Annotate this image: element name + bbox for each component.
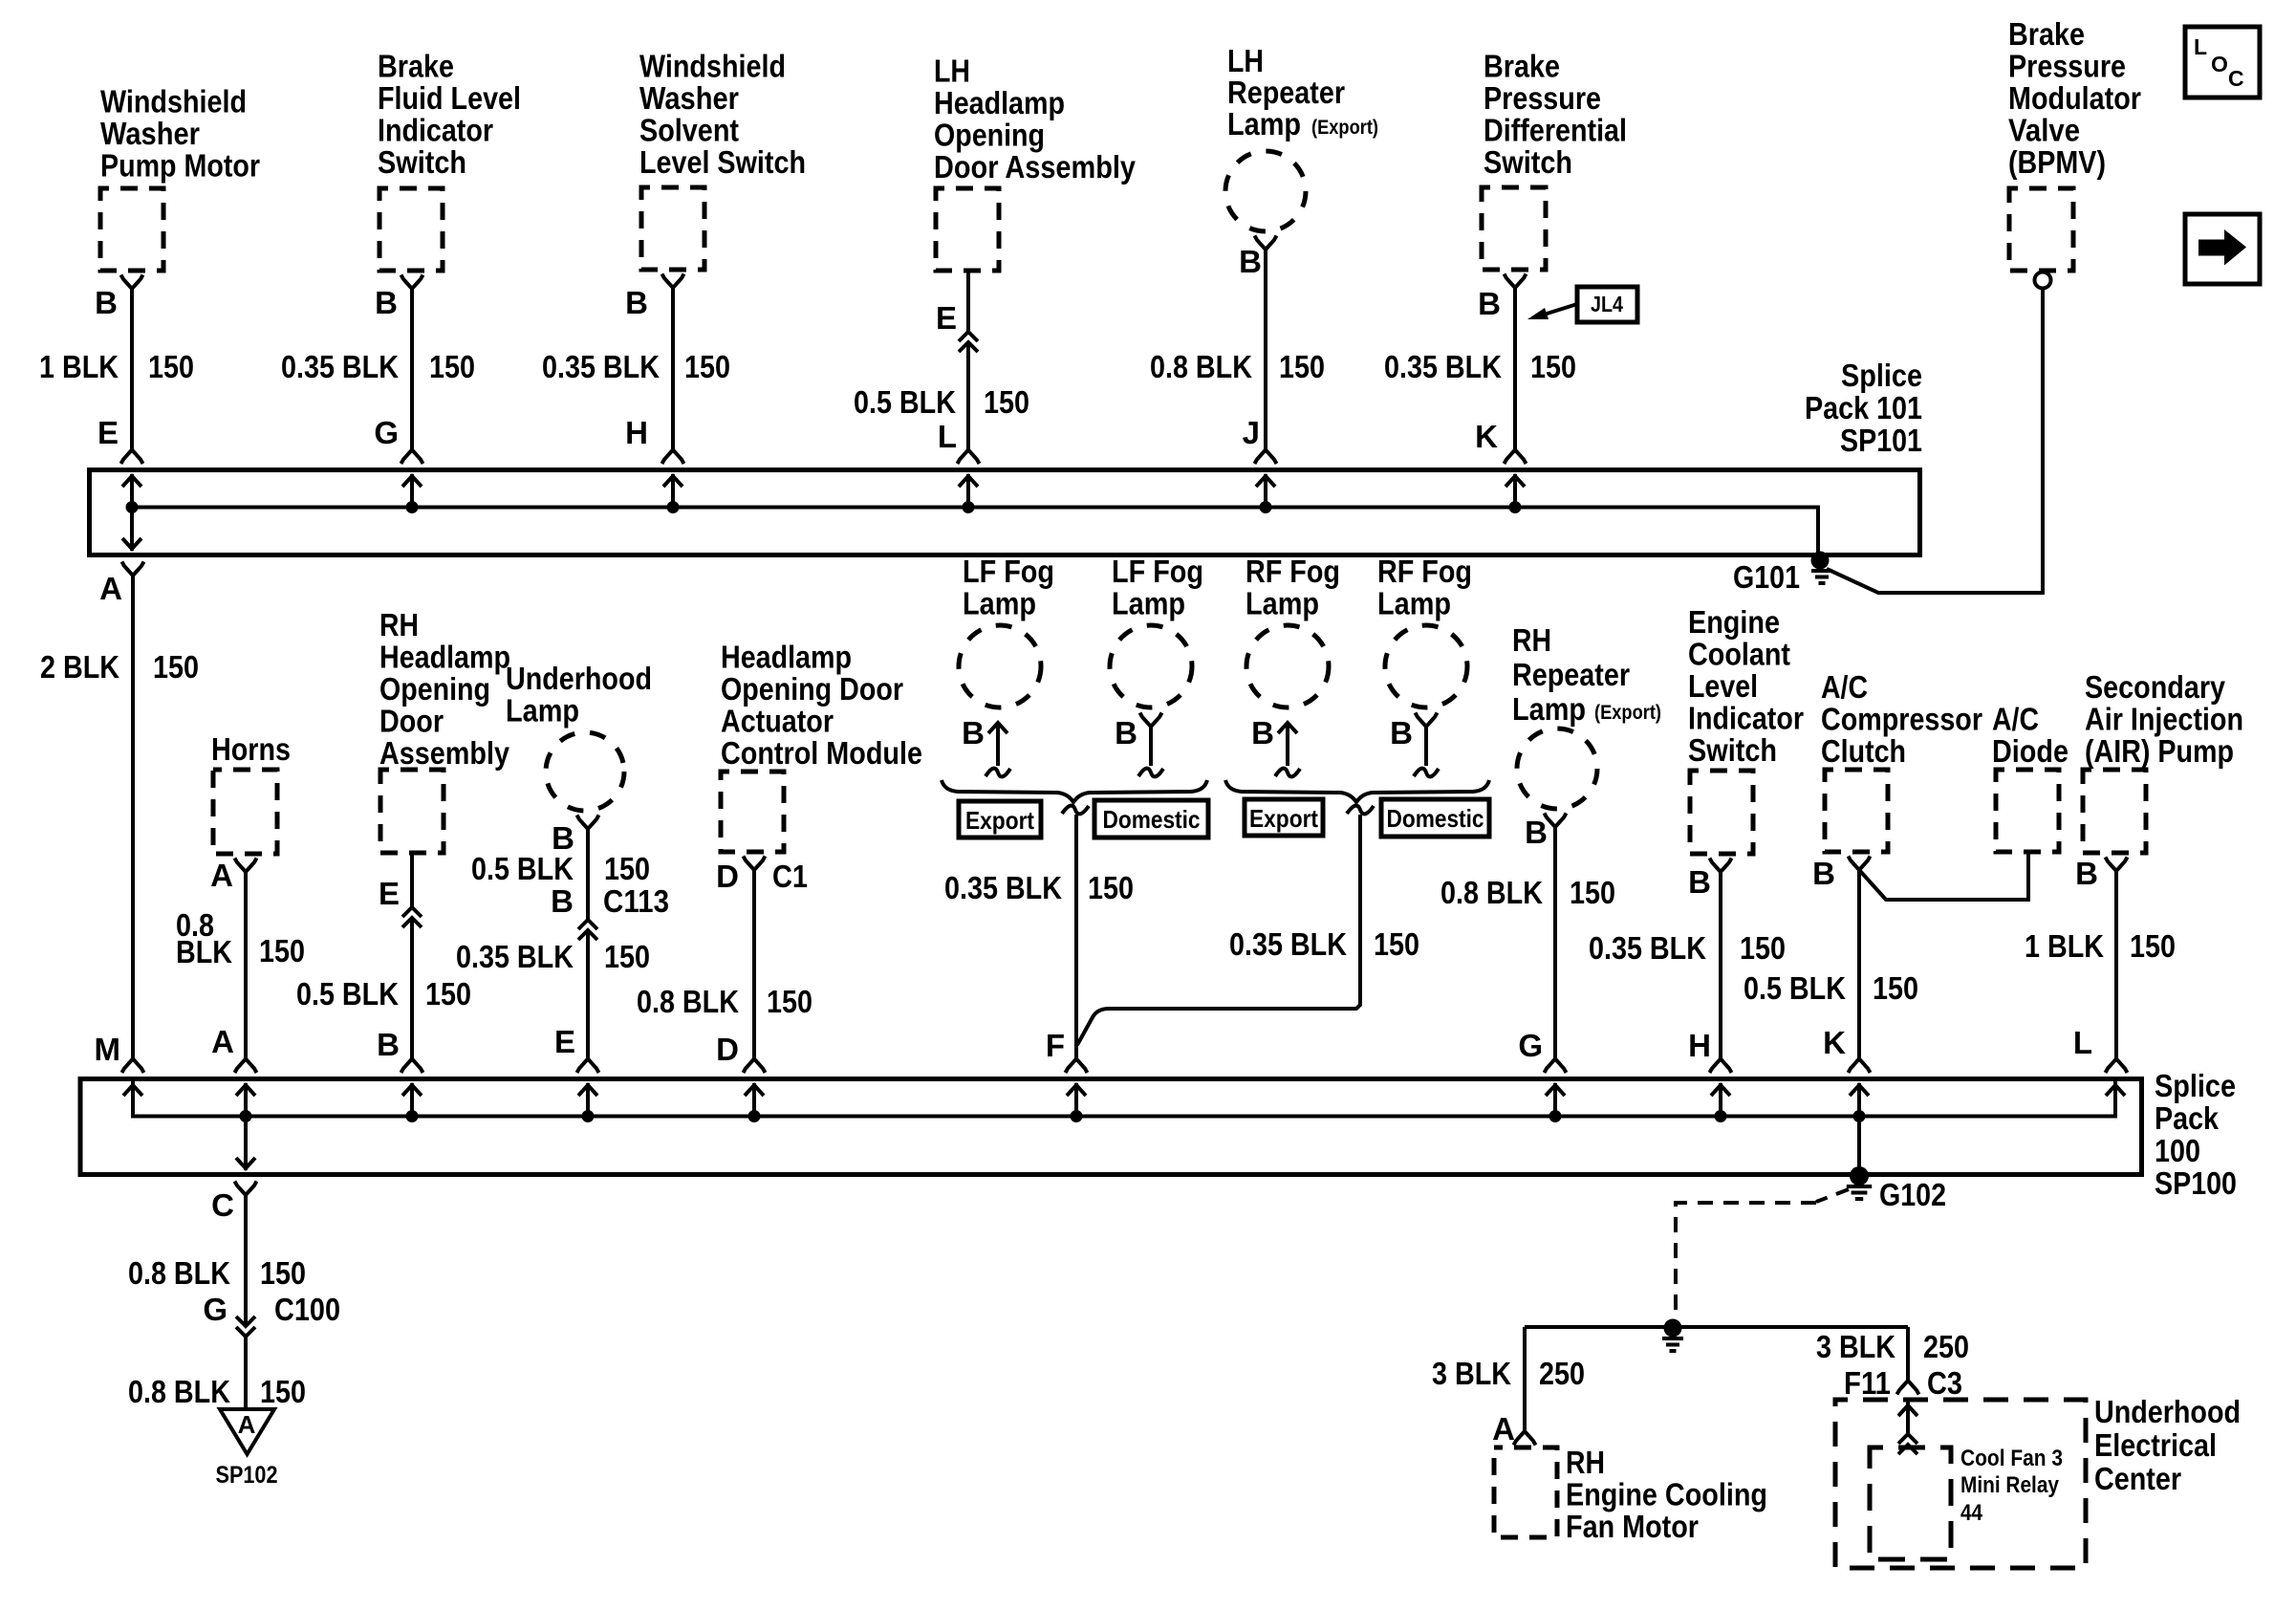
label: 3 BLK 250 (UEC wire) [1816, 1329, 1969, 1364]
svg-text:0.35 BLK: 0.35 BLK [1229, 926, 1347, 962]
wire: BPDS pin B to SP101 cavity K [1505, 274, 1527, 465]
svg-text:0.35 BLK: 0.35 BLK [281, 349, 399, 384]
label: Splice Pack 101 SP101 [1805, 358, 1922, 458]
connector C113 labels B / C113 [551, 883, 669, 919]
wire: Underhood Lamp B to connector C113 [577, 816, 599, 921]
svg-text:F11: F11 [1844, 1365, 1891, 1401]
svg-text:Pack 101: Pack 101 [1805, 390, 1922, 425]
svg-text:44: 44 [1960, 1500, 1983, 1526]
svg-text:G: G [203, 1292, 227, 1327]
svg-text:B: B [1251, 715, 1274, 751]
svg-text:0.35 BLK: 0.35 BLK [1384, 349, 1502, 384]
label: 0.5 BLK 150 (A/C clutch wire) [1744, 970, 1918, 1006]
label: 0.35 BLK 150 (RF fog wire) [1229, 926, 1419, 962]
svg-text:150: 150 [259, 933, 305, 968]
svg-text:Mini Relay: Mini Relay [1960, 1472, 2060, 1498]
svg-text:D: D [716, 1032, 739, 1067]
svg-text:Fluid Level: Fluid Level [378, 80, 521, 116]
svg-text:0.35 BLK: 0.35 BLK [1589, 930, 1706, 966]
svg-text:Switch: Switch [1484, 144, 1572, 180]
svg-text:150: 150 [604, 939, 650, 974]
svg-text:Pressure: Pressure [1484, 80, 1601, 116]
component: Windshield Washer Pump Motor [100, 84, 260, 272]
svg-text:LF Fog: LF Fog [963, 554, 1054, 589]
component: Brake Pressure Modulator Valve (BPMV) [2008, 16, 2141, 271]
svg-text:150: 150 [148, 349, 194, 384]
component: RH Engine Cooling Fan Motor [1494, 1445, 1767, 1544]
svg-text:Center: Center [2094, 1461, 2181, 1496]
svg-text:B: B [962, 715, 985, 751]
component: RF Fog Lamp (Export) [1245, 554, 1340, 707]
svg-text:A: A [211, 1024, 234, 1059]
svg-text:B: B [1478, 286, 1501, 321]
svg-text:1 BLK: 1 BLK [39, 349, 119, 384]
wire stub below RF Fog Lamp (Export) [1275, 723, 1300, 776]
svg-text:RH: RH [379, 607, 419, 642]
svg-text:O: O [2211, 52, 2228, 76]
svg-text:(Export): (Export) [1311, 117, 1378, 139]
svg-text:Washer: Washer [100, 116, 200, 151]
svg-text:L: L [2194, 34, 2207, 59]
svg-text:B: B [1812, 856, 1835, 891]
brace grouping LF fog lamps [942, 780, 1207, 802]
wire: BFLIS pin B to SP101 cavity G [401, 275, 423, 465]
SP101 inner bus wire [132, 508, 1818, 554]
wire: SP101 A to SP100 M, 2 BLK 150 [122, 562, 144, 1074]
wire: RH HODA pin E to SP100 cavity B with in-line connector [401, 853, 423, 1073]
in-line connector C100 [236, 1316, 255, 1409]
dashed ground link from G102 [1676, 1189, 1849, 1320]
svg-text:BLK: BLK [176, 934, 232, 969]
svg-text:Solvent: Solvent [639, 113, 739, 148]
svg-text:A: A [99, 571, 122, 606]
wire: WWPM pin B to SP101 cavity E [121, 275, 143, 465]
svg-text:G102: G102 [1879, 1177, 1946, 1212]
svg-text:Brake: Brake [2008, 16, 2085, 52]
svg-text:K: K [1475, 419, 1498, 454]
svg-text:Actuator: Actuator [721, 704, 834, 739]
component: Underhood Lamp [506, 661, 652, 811]
svg-text:B: B [1115, 715, 1137, 751]
svg-text:D: D [716, 859, 739, 894]
svg-text:H: H [625, 415, 648, 450]
svg-text:150: 150 [425, 976, 471, 1012]
svg-text:0.5 BLK: 0.5 BLK [1744, 970, 1846, 1006]
svg-text:Differential: Differential [1484, 113, 1627, 148]
wire: A/C clutch B to A/C diode [1860, 852, 2028, 900]
svg-text:0.35 BLK: 0.35 BLK [944, 870, 1062, 905]
svg-text:0.8 BLK: 0.8 BLK [637, 984, 739, 1019]
svg-text:E: E [379, 876, 400, 911]
label: 0.8 BLK 150 (wire LH Repeater) [1150, 349, 1325, 384]
svg-text:Diode: Diode [1992, 733, 2069, 769]
svg-text:G: G [1518, 1028, 1543, 1063]
svg-text:JL4: JL4 [1591, 292, 1623, 316]
svg-text:Headlamp: Headlamp [379, 640, 510, 675]
svg-text:B: B [1239, 244, 1262, 279]
svg-text:B: B [2075, 856, 2098, 891]
component: LH Repeater Lamp (Export) [1225, 43, 1378, 231]
svg-text:Washer: Washer [639, 80, 739, 116]
svg-text:Lamp: Lamp [1227, 106, 1301, 141]
label: 0.35 BLK 150 (EC switch wire) [1589, 930, 1786, 966]
ground G102 node on SP100 [1847, 1166, 1872, 1199]
wire: WWSLS pin B to SP101 cavity H [662, 274, 684, 465]
svg-text:150: 150 [1570, 875, 1615, 910]
svg-text:Cool Fan 3: Cool Fan 3 [1960, 1446, 2063, 1471]
svg-text:150: 150 [1088, 870, 1134, 905]
svg-text:C3: C3 [1927, 1365, 1962, 1401]
assembly: Underhood Electrical Center dashed box [1835, 1400, 2086, 1568]
component: Brake Pressure Differential Switch [1482, 49, 1627, 271]
svg-text:Level Switch: Level Switch [639, 144, 806, 180]
component: RH Headlamp Opening Door Assembly [379, 607, 510, 853]
svg-text:E: E [97, 415, 119, 450]
svg-text:Switch: Switch [1688, 732, 1777, 768]
svg-text:Lamp: Lamp [1512, 691, 1586, 727]
svg-text:0.8 BLK: 0.8 BLK [128, 1255, 230, 1291]
component: A/C Diode [1992, 702, 2069, 853]
svg-text:Level: Level [1688, 668, 1758, 704]
svg-text:Repeater: Repeater [1512, 657, 1630, 692]
symbol box: right arrow [2185, 214, 2260, 284]
callout JL4 with arrow to wire [1527, 287, 1637, 322]
in-line connector C113 [577, 920, 599, 1073]
svg-text:A/C: A/C [1821, 669, 1868, 705]
svg-text:Modulator: Modulator [2008, 80, 2141, 116]
svg-text:Windshield: Windshield [639, 49, 786, 84]
SP100 inner bus wire [133, 1081, 2115, 1117]
wire stub below RF Fog Lamp (Domestic) [1414, 713, 1439, 777]
label: 0.35 BLK 150 (wire BPDS) [1384, 349, 1576, 384]
svg-text:K: K [1823, 1025, 1846, 1060]
svg-text:B: B [377, 1027, 400, 1062]
svg-text:Control Module: Control Module [721, 735, 922, 771]
svg-text:0.5 BLK: 0.5 BLK [296, 976, 399, 1012]
svg-text:G101: G101 [1733, 559, 1800, 595]
component: RH Repeater Lamp (Export) [1512, 622, 1661, 809]
svg-text:J: J [1243, 415, 1260, 450]
svg-text:150: 150 [1873, 970, 1918, 1006]
svg-text:Lamp: Lamp [963, 586, 1036, 621]
wire: ground bus to RH engine cooling fan motor and UEC [1514, 1327, 1919, 1446]
svg-text:Repeater: Repeater [1227, 75, 1345, 110]
brace grouping RF fog lamps [1225, 780, 1489, 802]
svg-text:Door Assembly: Door Assembly [934, 149, 1137, 185]
svg-text:(Export): (Export) [1594, 702, 1661, 724]
svg-text:B: B [1525, 815, 1548, 850]
connector C100 labels G / C100 [203, 1292, 340, 1327]
terminal circle of BPMV [2035, 272, 2051, 289]
svg-text:Secondary: Secondary [2085, 669, 2226, 705]
svg-text:LH: LH [934, 54, 970, 89]
svg-text:E: E [554, 1024, 575, 1059]
svg-text:3 BLK: 3 BLK [1432, 1356, 1511, 1391]
svg-text:1 BLK: 1 BLK [2025, 928, 2104, 964]
label: 3 BLK 250 (fan motor wire) [1432, 1356, 1585, 1391]
svg-text:150: 150 [153, 649, 199, 685]
svg-text:Opening Door: Opening Door [721, 671, 903, 707]
svg-text:Indicator: Indicator [1688, 701, 1804, 736]
wire: Horns pin A to SP100 cavity A [235, 859, 257, 1074]
svg-text:Headlamp: Headlamp [934, 85, 1065, 120]
svg-text:0.5 BLK: 0.5 BLK [471, 851, 574, 886]
wire stub below LF Fog Lamp (Export) [986, 723, 1010, 776]
svg-text:Opening: Opening [379, 671, 490, 707]
splice SP102 triangle symbol [220, 1409, 274, 1454]
svg-text:Export: Export [1249, 804, 1318, 833]
svg-text:G: G [374, 415, 399, 450]
svg-text:0.8 BLK: 0.8 BLK [128, 1374, 230, 1409]
variant box: Domestic (LF) [1094, 800, 1208, 838]
label: Underhood Electrical Center [2094, 1394, 2241, 1496]
label: 0.35 BLK 150 (underhood lamp lower) [456, 939, 650, 974]
label: 0.35 BLK 150 (wire WWSLS) [542, 349, 730, 384]
svg-text:Fan Motor: Fan Motor [1566, 1509, 1699, 1544]
svg-text:L: L [938, 419, 957, 454]
svg-text:Splice: Splice [2155, 1068, 2236, 1103]
svg-text:Splice: Splice [1841, 358, 1922, 393]
label: 0.5 BLK 150 (underhood lamp upper) [471, 851, 650, 886]
wire: AIR pump B to SP100 cavity L [2106, 858, 2128, 1074]
svg-text:Brake: Brake [1484, 49, 1560, 84]
tilted fork at A/C clutch pin B [1849, 857, 1871, 871]
splice pack SP101 bus box [90, 470, 1920, 555]
svg-text:B: B [1390, 715, 1413, 751]
svg-text:Pump Motor: Pump Motor [100, 148, 260, 184]
variant box: Export (RF) [1245, 799, 1323, 836]
label: 0.8 BLK 150 (wire HODACM) [637, 984, 812, 1019]
svg-text:0.8 BLK: 0.8 BLK [1150, 349, 1252, 384]
component: LF Fog Lamp (Export) [959, 554, 1054, 707]
variant box: Export (LF) [959, 801, 1041, 838]
label: 2 BLK 150 (wire A-M) [40, 649, 199, 685]
component: Cool Fan 3 Mini Relay 44 [1870, 1446, 2063, 1559]
svg-text:H: H [1688, 1028, 1711, 1063]
component: Windshield Washer Solvent Level Switch [639, 49, 806, 271]
svg-text:2 BLK: 2 BLK [40, 649, 119, 685]
wire: A/C clutch B to SP100 cavity K [1849, 870, 1871, 1073]
svg-text:A: A [1492, 1411, 1515, 1447]
svg-text:Valve: Valve [2008, 113, 2080, 148]
svg-text:B: B [95, 285, 118, 320]
wire: RF fog lamp pair joining F wire [1077, 806, 1374, 1045]
svg-text:B: B [1688, 864, 1711, 900]
svg-text:Pack: Pack [2155, 1100, 2220, 1136]
label: Splice Pack 100 SP100 [2155, 1068, 2237, 1201]
svg-text:Opening: Opening [934, 118, 1045, 153]
svg-text:Headlamp: Headlamp [721, 640, 852, 675]
svg-text:150: 150 [1374, 926, 1419, 962]
ground junction node near fan motor [1662, 1319, 1683, 1352]
SP100 junction dots [240, 1110, 1866, 1122]
svg-text:LF Fog: LF Fog [1112, 554, 1203, 589]
svg-text:Domestic: Domestic [1387, 804, 1484, 833]
svg-text:A/C: A/C [1992, 702, 2039, 737]
svg-text:(BPMV): (BPMV) [2008, 144, 2106, 180]
svg-text:Export: Export [965, 806, 1034, 835]
svg-text:250: 250 [1539, 1356, 1585, 1391]
svg-text:150: 150 [767, 984, 812, 1019]
svg-text:SP102: SP102 [216, 1462, 278, 1489]
component: LF Fog Lamp (Domestic) [1110, 554, 1203, 707]
svg-text:B: B [375, 285, 398, 320]
label: 0.35 BLK 150 (LF fog wire) [944, 870, 1134, 905]
svg-text:Domestic: Domestic [1103, 805, 1201, 834]
wire: HODACM pin D to SP100 cavity D [744, 857, 766, 1074]
svg-text:Lamp: Lamp [1112, 586, 1185, 621]
svg-text:C: C [2228, 66, 2244, 91]
svg-text:C1: C1 [772, 859, 808, 894]
component: Headlamp Opening Door Actuator Control Module [721, 640, 922, 853]
svg-text:RH: RH [1566, 1445, 1605, 1480]
svg-text:C100: C100 [274, 1292, 340, 1327]
SP100 cavity arrows [123, 1083, 2125, 1172]
splice pack SP100 bus box [80, 1079, 2142, 1175]
svg-text:RF Fog: RF Fog [1245, 554, 1340, 589]
component: Brake Fluid Level Indicator Switch [378, 49, 521, 272]
svg-text:100: 100 [2155, 1133, 2200, 1168]
svg-text:B: B [551, 883, 574, 919]
svg-text:M: M [95, 1032, 121, 1067]
label: 0.35 BLK 150 (wire BFLIS) [281, 349, 475, 384]
svg-text:150: 150 [984, 384, 1029, 420]
svg-text:150: 150 [429, 349, 475, 384]
SP101 cavity arrows [122, 474, 1525, 551]
label: 0.8 BLK 150 (RH repeater wire) [1440, 875, 1615, 910]
label: 0.5 BLK 150 (wire LH HODA) [854, 384, 1029, 420]
label: 0.8 BLK 150 (wire Horns) [176, 907, 305, 969]
svg-text:0.35 BLK: 0.35 BLK [456, 939, 574, 974]
svg-text:Clutch: Clutch [1821, 733, 1906, 769]
label: 0.5 BLK 150 (wire RH HODA) [296, 976, 471, 1012]
svg-text:Compressor: Compressor [1821, 702, 1982, 737]
svg-text:B: B [625, 285, 648, 320]
svg-text:250: 250 [1923, 1329, 1969, 1364]
svg-text:A: A [210, 858, 233, 893]
wire: BPMV to ground G101 [1827, 289, 2043, 594]
component: RF Fog Lamp (Domestic) [1377, 554, 1472, 707]
svg-text:150: 150 [260, 1255, 306, 1291]
svg-text:Lamp: Lamp [506, 693, 579, 729]
svg-text:LH: LH [1227, 43, 1264, 78]
svg-text:150: 150 [1740, 930, 1786, 966]
svg-text:C113: C113 [603, 883, 669, 919]
pin D and connector C1 of HODACM [716, 859, 808, 894]
svg-text:Assembly: Assembly [379, 735, 510, 771]
label: 0.8 BLK 150 (upper C wire) [128, 1255, 306, 1291]
wire entry arrow into UEC fuse F11 [1898, 1402, 1917, 1454]
svg-text:Underhood: Underhood [2094, 1394, 2241, 1429]
svg-text:Horns: Horns [211, 731, 291, 767]
svg-text:Underhood: Underhood [506, 661, 652, 696]
wire: SP100 C to connector C100 [235, 1182, 257, 1327]
wire stub below LF Fog Lamp (Domestic) [1138, 713, 1163, 777]
svg-text:SP100: SP100 [2155, 1165, 2237, 1201]
symbol box: LOC legend [2185, 27, 2260, 98]
component: Engine Coolant Level Indicator Switch [1688, 604, 1804, 854]
svg-text:Engine: Engine [1688, 604, 1780, 640]
svg-text:Engine Cooling: Engine Cooling [1566, 1477, 1767, 1512]
wire: LF fog lamp pair to SP100 cavity F [1062, 806, 1089, 1073]
component: LH Headlamp Opening Door Assembly [934, 54, 1137, 272]
svg-text:(AIR) Pump: (AIR) Pump [2085, 733, 2234, 769]
svg-text:Coolant: Coolant [1688, 637, 1790, 672]
label: 1 BLK 150 (wire WWPM) [39, 349, 194, 384]
svg-text:RF Fog: RF Fog [1377, 554, 1472, 589]
wire: RH Repeater Lamp B to SP100 cavity G [1545, 814, 1567, 1074]
svg-text:C: C [211, 1187, 234, 1223]
svg-text:150: 150 [1279, 349, 1325, 384]
svg-text:3 BLK: 3 BLK [1816, 1329, 1895, 1364]
svg-text:Brake: Brake [378, 49, 454, 84]
component: A/C Compressor Clutch [1821, 669, 1982, 852]
svg-text:Switch: Switch [378, 144, 466, 180]
svg-text:A: A [238, 1410, 256, 1439]
svg-text:Windshield: Windshield [100, 84, 247, 120]
svg-text:150: 150 [1530, 349, 1576, 384]
wire: LH Repeater Lamp pin B to SP101 cavity J [1255, 236, 1277, 465]
svg-text:Air Injection: Air Injection [2085, 702, 2243, 737]
connector C3 labels F11 / C3 [1844, 1365, 1962, 1401]
wire: EC switch B to SP100 cavity H [1710, 859, 1732, 1074]
svg-text:0.35 BLK: 0.35 BLK [542, 349, 660, 384]
component: Secondary Air Injection (AIR) Pump [2083, 669, 2243, 853]
svg-text:F: F [1046, 1028, 1065, 1063]
svg-text:RH: RH [1512, 622, 1551, 658]
svg-text:Door: Door [379, 704, 444, 739]
svg-text:L: L [2073, 1025, 2092, 1060]
wire: LH HODA pin E to SP101 cavity L with in-line connector [958, 271, 980, 464]
svg-text:Electrical: Electrical [2094, 1427, 2217, 1463]
svg-text:SP101: SP101 [1840, 423, 1922, 458]
ground G101 node on SP101 [1811, 552, 1833, 584]
svg-text:Lamp: Lamp [1245, 586, 1319, 621]
svg-text:0.8 BLK: 0.8 BLK [1440, 875, 1543, 910]
label: 0.8 BLK 150 (lower C wire) [128, 1374, 306, 1409]
svg-text:0.5 BLK: 0.5 BLK [854, 384, 956, 420]
label: 1 BLK 150 (AIR pump wire) [2025, 928, 2176, 964]
svg-text:Lamp: Lamp [1377, 586, 1451, 621]
svg-text:Pressure: Pressure [2008, 49, 2126, 84]
svg-text:150: 150 [604, 851, 650, 886]
svg-text:150: 150 [2130, 928, 2176, 964]
svg-text:150: 150 [260, 1374, 306, 1409]
SP101 junction dots [126, 501, 1522, 513]
svg-text:Indicator: Indicator [378, 113, 493, 148]
svg-text:E: E [936, 300, 957, 336]
svg-text:150: 150 [684, 349, 730, 384]
variant box: Domestic (RF) [1381, 799, 1489, 837]
component: Horns [211, 731, 291, 854]
